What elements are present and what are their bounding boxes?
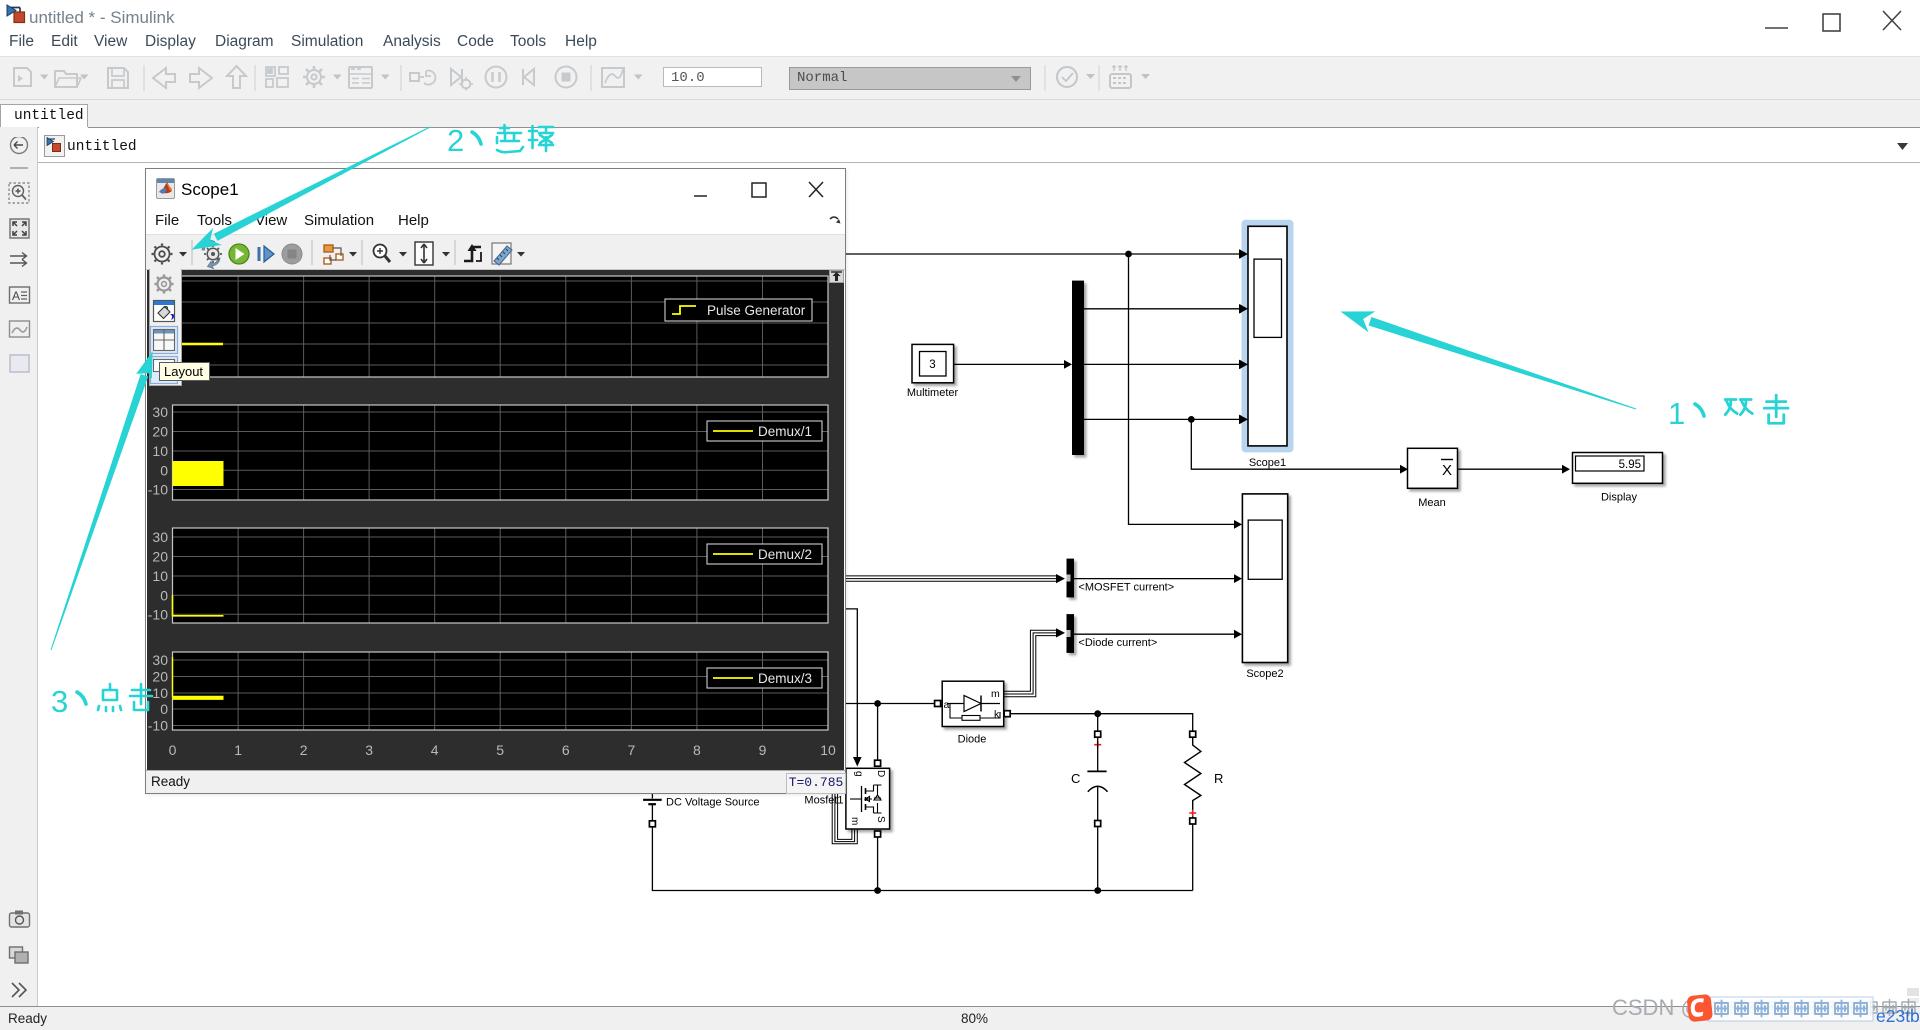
bus wire: Mosfet m measurement U-turn (triple line) bbox=[832, 794, 857, 844]
main toolbar bbox=[0, 56, 1920, 101]
wire: gate drive from Pulse Generator to Mosfet g bbox=[842, 609, 857, 758]
Display block showing 5.95 bbox=[1573, 453, 1663, 504]
annotation text 2 选择 bbox=[447, 123, 553, 158]
port square: Mosfet S bbox=[875, 831, 881, 837]
gear icon bbox=[155, 275, 174, 294]
wire: DC- down and along ground rail to R bbox=[652, 827, 1192, 891]
wire: Mosfet S to ground rail bbox=[877, 837, 879, 891]
menu bar bbox=[146, 206, 845, 234]
title bar bbox=[156, 178, 175, 199]
pause bbox=[486, 67, 507, 88]
annotation arrow 1 (points at Scope1 block) bbox=[1342, 312, 1636, 409]
resistor R bbox=[1185, 731, 1224, 824]
wire: Multimeter to Demux bbox=[954, 363, 1064, 365]
step fwd bbox=[523, 69, 534, 85]
port square: Mosfet D bbox=[875, 760, 881, 766]
settings gear bbox=[303, 66, 325, 88]
svg-text:e23tb): e23tb) bbox=[1876, 1006, 1920, 1026]
scope status bar bbox=[146, 770, 845, 793]
trigger bbox=[464, 244, 481, 261]
Multimeter block bbox=[907, 344, 959, 399]
wire arrowhead into Scope1 input 1 bbox=[1240, 250, 1248, 259]
gray text bbox=[1612, 995, 1915, 1020]
annotation arrow 2 (points at scope settings gear) bbox=[193, 127, 430, 249]
layout dropdown panel bbox=[149, 269, 182, 386]
toolbar bbox=[146, 234, 845, 270]
svg-text:3: 3 bbox=[51, 684, 68, 719]
Mosfet block bbox=[846, 768, 890, 829]
DC Voltage Source bbox=[643, 790, 759, 827]
wire: bus selector 2 to Scope2 input 3 bbox=[1074, 633, 1234, 635]
wire: Demux out 2 to Scope1 input 3 bbox=[1084, 363, 1240, 365]
Diode block bbox=[942, 681, 1004, 745]
bus wire: Mosfet m to bus selector 1 (triple line) bbox=[842, 576, 1058, 581]
annotation text 3 点击 bbox=[51, 684, 152, 719]
model config bbox=[349, 67, 372, 88]
label Mosfet1 bbox=[804, 795, 843, 807]
dock-back button top right of plot area bbox=[829, 270, 844, 283]
library browser bbox=[266, 67, 288, 87]
stop bbox=[556, 67, 577, 88]
blue bold glyphs bbox=[1715, 1001, 1867, 1017]
wire: junction down to C bbox=[1097, 714, 1099, 732]
white overlay box bbox=[1708, 997, 1873, 1021]
wire: C bottom to ground rail bbox=[1097, 827, 1099, 891]
signal selector bbox=[324, 245, 343, 264]
Scope2 block bbox=[1242, 494, 1287, 680]
wire arrowhead into Scope2 input 1 bbox=[1234, 520, 1242, 529]
node: junction C on rail bbox=[1094, 887, 1101, 894]
stop (disabled) bbox=[282, 244, 302, 264]
svg-text:2: 2 bbox=[447, 123, 464, 158]
zoom bbox=[374, 245, 391, 263]
style icon bbox=[154, 301, 175, 322]
svg-text:1: 1 bbox=[1668, 396, 1685, 431]
sim time field bbox=[663, 67, 762, 87]
back bbox=[153, 68, 175, 88]
wire: Mean to Display bbox=[1458, 468, 1563, 470]
new model bbox=[14, 68, 31, 86]
wire: bus selector 1 to Scope2 input 2 bbox=[1074, 578, 1234, 580]
layout icon (hover highlighted) bbox=[151, 327, 178, 354]
up bbox=[227, 66, 246, 88]
wire: DC+ rail to Diode anode bbox=[842, 703, 935, 705]
Scope1 block (selected, blue halo) bbox=[1239, 220, 1294, 469]
bus selector bar <MOSFET current> bbox=[1067, 559, 1175, 598]
wire: Demux out 1 to Scope1 input 2 bbox=[1084, 308, 1240, 310]
step forward bbox=[259, 246, 274, 262]
node: junction Mosfet S on rail bbox=[874, 887, 881, 894]
csdn orange logo bbox=[1686, 994, 1713, 1022]
scope bbox=[602, 68, 624, 87]
wire: Pulse Generator to Scope1 input 1 bbox=[845, 253, 1240, 255]
annotation arrow 3 (points at Layout button) bbox=[51, 353, 152, 650]
ruler bbox=[492, 243, 512, 265]
menu bar bbox=[0, 33, 1920, 56]
node: junction on demux out 3 bbox=[1188, 416, 1195, 423]
arrowhead into Mosfet g port bbox=[853, 757, 862, 767]
wire: Diode k to C and R top bbox=[1010, 714, 1192, 732]
bus wire: Diode m to bus selector 2 (triple line) bbox=[1004, 630, 1058, 697]
Demux block (black bar) bbox=[1072, 281, 1084, 455]
update/connect bbox=[410, 71, 435, 85]
plot area bbox=[147, 270, 844, 770]
forward bbox=[190, 68, 212, 88]
port square: Diode a bbox=[935, 701, 941, 707]
wire: R bottom to ground rail bbox=[1192, 824, 1194, 891]
annotation text 1 双击 bbox=[1668, 395, 1788, 431]
wire: Demux out 3 to Scope1 input 4 bbox=[1084, 418, 1240, 420]
step back with gear bbox=[451, 69, 473, 91]
partial white veil over blue glyphs bbox=[1710, 998, 1870, 1020]
partially hidden 4th icon bbox=[151, 357, 178, 384]
scope plots svg (page coordinates) bbox=[146, 269, 845, 769]
wire: junction down to Mosfet D port bbox=[877, 704, 879, 761]
play bbox=[229, 244, 249, 264]
node: junction above Mosfet drain bbox=[874, 700, 881, 707]
bus selector bar <Diode current> bbox=[1067, 614, 1158, 653]
highlight/link icon bbox=[202, 240, 222, 269]
normal combo bbox=[789, 67, 1031, 90]
Mean block bbox=[1408, 448, 1458, 509]
wire: junction down to Scope2 input 1 bbox=[1129, 254, 1235, 524]
open bbox=[55, 71, 81, 87]
port square: Diode k bbox=[1004, 711, 1010, 717]
save bbox=[108, 68, 128, 88]
node: junction on pulse wire bbox=[1125, 251, 1132, 258]
wire: junction down to Mean input bbox=[1191, 419, 1400, 469]
axes scale bbox=[415, 242, 433, 265]
window buttons bbox=[1755, 5, 1915, 35]
gear bbox=[152, 244, 173, 265]
node: junction at C top bbox=[1094, 710, 1101, 717]
capacitor C bbox=[1071, 731, 1108, 826]
Layout tooltip bbox=[159, 362, 210, 381]
title bar icon + text bbox=[4, 4, 26, 26]
